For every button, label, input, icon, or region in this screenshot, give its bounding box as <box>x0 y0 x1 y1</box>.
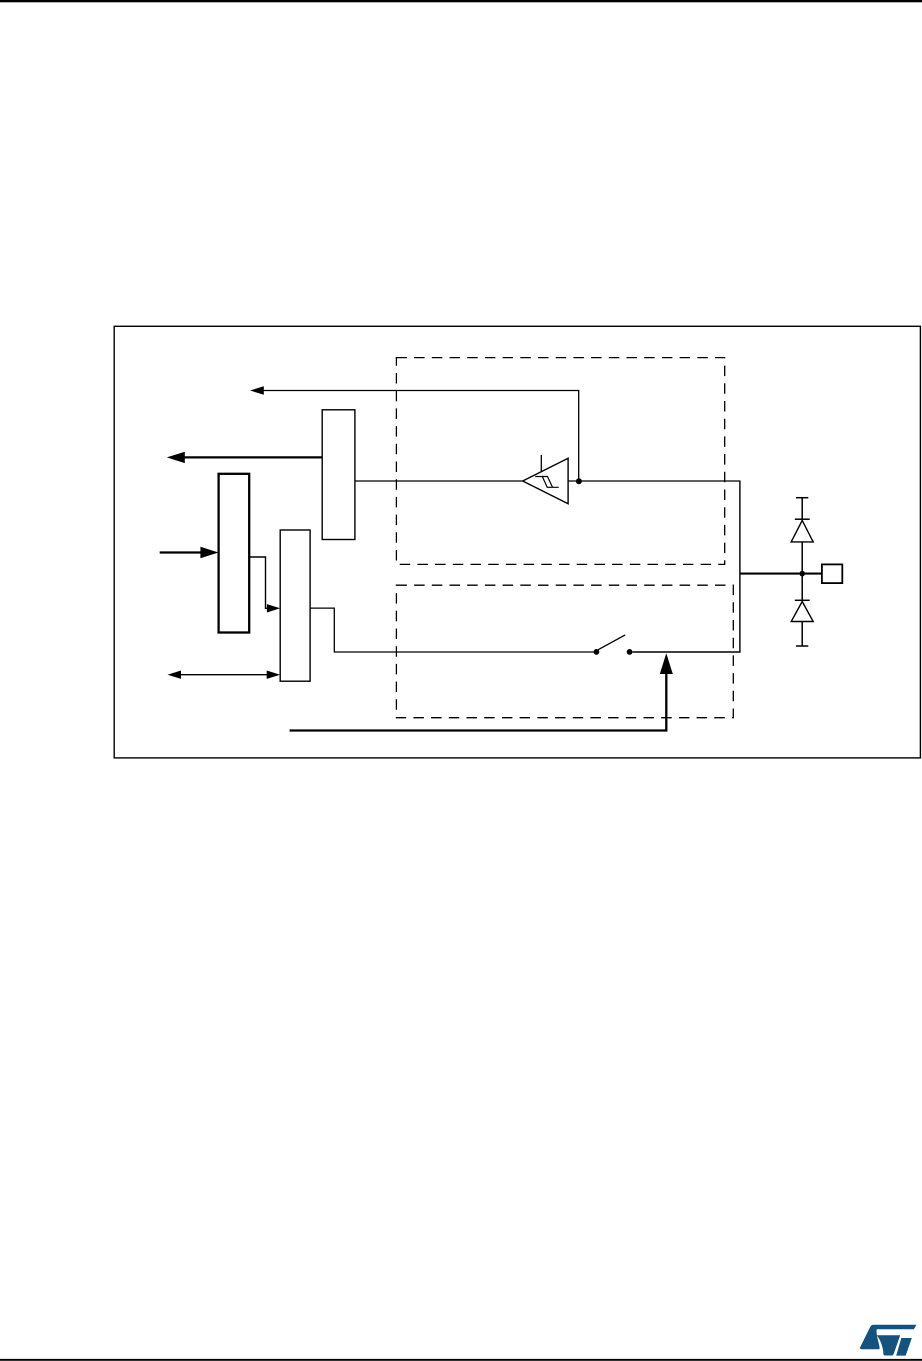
page bottom rule <box>0 1359 922 1361</box>
wire: switch to right bus <box>633 481 740 652</box>
double arrow A4 (read/write) <box>180 674 268 676</box>
wire: diode D1 to pad node <box>801 542 803 574</box>
diode D1 triangle <box>791 520 813 542</box>
I/O pad square <box>822 564 842 583</box>
bold arrow A2 (read access, to left) <box>181 456 322 458</box>
arrowhead A1 (to on-chip peripheral) <box>250 386 264 395</box>
register block R2 (bit set/reset registers, bold) <box>219 474 250 633</box>
schmitt trigger U1 triangle <box>523 458 568 504</box>
wire: schmitt tip to register R1 <box>355 480 523 482</box>
wire: diode D2 to VSS <box>801 622 803 647</box>
bold control arrowhead up <box>660 653 673 674</box>
wire: R3 to analog switch <box>310 608 593 652</box>
schmitt hysteresis mark <box>535 477 558 488</box>
analog switch right contact <box>627 649 633 655</box>
page top rule <box>0 0 922 2</box>
wire: schmitt output to right bus <box>568 480 740 482</box>
diode D1 cathode bar <box>795 518 810 520</box>
register block R3 (output data register) <box>280 530 310 681</box>
diode D2 cathode bar <box>795 599 810 601</box>
wire: top feedback to arrow A1 <box>263 391 579 482</box>
figure frame <box>114 326 920 758</box>
analog switch lever <box>598 635 625 650</box>
input driver dashed box <box>396 358 724 565</box>
schmitt trigger tick <box>540 455 542 472</box>
register block R1 (input data register) <box>322 410 355 540</box>
ST logo <box>860 1325 917 1356</box>
wire: bus to I/O pad with junction <box>740 573 822 575</box>
bold control wire bottom <box>290 672 667 731</box>
wire: R2 to R3 step with arrowhead <box>249 557 267 608</box>
analog switch left contact <box>594 649 600 655</box>
bold arrow A3 (write access, to right) <box>160 551 203 553</box>
junction dot at pad node <box>799 571 805 577</box>
diode D2 triangle <box>791 602 813 622</box>
wire: VDD to diode D1 <box>801 498 803 520</box>
VDD rail bar <box>796 497 808 499</box>
output driver dashed box <box>396 585 733 718</box>
VSS rail bar <box>796 645 808 647</box>
junction dot on schmitt output <box>576 478 582 484</box>
wire: pad node to diode D2 <box>801 574 803 601</box>
